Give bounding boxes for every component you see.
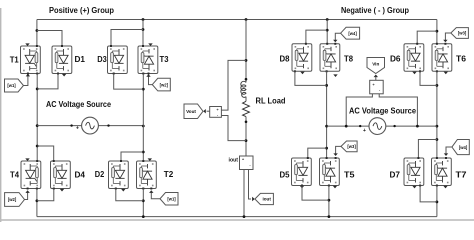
wire gate T5 [336, 146, 341, 154]
wire gate T6 [445, 33, 450, 41]
wire to D8 top [306, 30, 327, 44]
from tag [w4] for T7 [452, 140, 469, 155]
label iout block [229, 158, 239, 164]
junction leg1/D1 bottom [36, 88, 39, 91]
label D2 [95, 170, 105, 179]
diode block D7 [404, 157, 424, 187]
svg-text:iout: iout [262, 197, 271, 202]
wire to D6 top [417, 31, 437, 44]
label AC Voltage Source right [349, 106, 417, 115]
wire rail to T6 anode [436, 20, 438, 44]
node corner load top [245, 59, 248, 62]
svg-text:+: + [363, 128, 366, 134]
junction Vin + on AC line [345, 125, 348, 128]
label T5 [344, 171, 355, 180]
arrow into Vout tag [203, 109, 206, 113]
wire to D2 top [121, 152, 143, 161]
m-port arrow T2 [148, 158, 152, 161]
wire T7 cathode down [436, 186, 438, 217]
junction leg3/AC line [325, 125, 328, 128]
label T7 [456, 171, 468, 180]
gate arrow T7 [444, 153, 448, 156]
diode block D5 [292, 157, 312, 187]
svg-text:D2: D2 [95, 170, 105, 179]
gate arrow T6 [443, 40, 447, 43]
wire to D4 top [37, 146, 54, 161]
plus mark left source [76, 126, 79, 132]
svg-text:RL Load: RL Load [256, 97, 286, 106]
wire Vout signal [207, 110, 210, 112]
thyristor block T7 [432, 157, 452, 187]
m-port arrow D1 [62, 74, 66, 77]
junction bottom rail leg3 [328, 215, 331, 218]
svg-text:D1: D1 [75, 55, 86, 64]
wire top DC rail [37, 19, 437, 21]
junction T8/D8 bottom [325, 84, 328, 87]
series RLC port mark bottom [245, 121, 248, 124]
goto tag iout [255, 193, 274, 204]
wire T6 cathode to T7 anode [436, 71, 438, 158]
junction leg2/AC line [142, 125, 145, 128]
m-port arrow D7 [412, 186, 416, 189]
voltage measurement block Vin [370, 80, 384, 94]
m-port arrow D5 [300, 186, 304, 189]
wire D1 bottom join [37, 74, 58, 89]
thyristor block T2 [137, 160, 157, 190]
svg-text:AC Voltage Source: AC Voltage Source [349, 106, 417, 115]
title Negative ( - ) Group [341, 6, 409, 15]
wire R to iout block [245, 117, 247, 156]
junction T5/D5 bottom [328, 199, 331, 202]
wire rail to T3 anode [142, 20, 144, 47]
svg-text:[w2]: [w2] [160, 82, 169, 87]
label T2 [164, 170, 174, 179]
svg-text:[w3]: [w3] [347, 144, 356, 149]
gate arrow T5 [333, 153, 337, 156]
junction bottom rail leg2 [142, 215, 145, 218]
label D1 [75, 55, 86, 64]
m-port arrow D8 [300, 72, 304, 75]
wire bottom DC rail [37, 216, 437, 218]
svg-text:D7: D7 [390, 171, 401, 180]
from tag [w3] for T6 [451, 28, 469, 39]
AC source port mark left [70, 124, 72, 126]
gate arrow T2 [149, 190, 153, 193]
junction leg4/D7 top split [436, 138, 439, 141]
svg-text:iout: iout [229, 158, 239, 164]
series RLC port mark top [245, 78, 248, 81]
from tag [w3] for T5 [341, 141, 357, 152]
label D5 [280, 171, 291, 180]
AC voltage source V2 circle [369, 118, 386, 135]
goto tag Vin [367, 58, 385, 74]
svg-text:D8: D8 [280, 55, 291, 64]
wire gate T3 [149, 76, 153, 85]
thyristor block T4 [21, 160, 41, 190]
svg-text:D5: D5 [280, 171, 291, 180]
m-port arrow T4 [25, 158, 29, 161]
junction T3/D3 top split [142, 28, 145, 31]
wire rail to T8 anode [326, 20, 328, 44]
svg-text:+: + [76, 126, 79, 132]
label T6 [456, 55, 467, 64]
AC source right port mark R [393, 125, 395, 127]
svg-text:[w4]: [w4] [459, 145, 468, 150]
plus mark right source [363, 128, 366, 134]
wire T5 cathode down [328, 186, 330, 217]
svg-text:T6: T6 [456, 55, 467, 64]
svg-text:[w1]: [w1] [7, 83, 16, 88]
svg-text:T8: T8 [344, 55, 354, 64]
diode block D6 [404, 43, 424, 73]
wire D7 bottom join [420, 186, 437, 202]
label T3 [160, 55, 170, 64]
m-port arrow T3 [148, 43, 152, 46]
wire L to R [245, 97, 247, 102]
wire Vmeas - link [221, 116, 246, 141]
wire T1 cathode to T4 anode [36, 74, 38, 162]
wire to D7 top [418, 140, 437, 159]
junction T7/D7 bottom [436, 201, 439, 204]
label T1 [10, 56, 20, 65]
m-port arrow T6 [444, 72, 448, 75]
wire D5 bottom join [302, 186, 329, 201]
label D4 [75, 171, 86, 180]
label T8 [344, 55, 354, 64]
label T4 [10, 171, 20, 180]
label D3 [97, 55, 107, 64]
svg-text:D6: D6 [390, 55, 401, 64]
wire gate T1 [24, 76, 28, 86]
svg-text:D4: D4 [75, 171, 86, 180]
label AC Voltage Source left [46, 100, 112, 109]
junction T2/D2 bottom [142, 199, 145, 202]
voltage measurement block Vout [210, 107, 222, 118]
junction T6/D6 bottom [436, 84, 439, 87]
wire iout to bottom rail [243, 170, 245, 217]
m-port arrow T1 [25, 43, 29, 46]
junction leg3/D5 top split [325, 147, 328, 150]
AC source right port mark L [359, 125, 361, 127]
wire T8 cathode to T5 anode [326, 71, 328, 158]
wire gate T4 [25, 192, 28, 200]
m-port arrow T7 [443, 186, 447, 189]
wire AC line right segment [98, 125, 143, 127]
arrow into Vin tag [374, 75, 378, 78]
m-port arrow T5 [333, 186, 337, 189]
m-port arrow D6 [412, 72, 416, 75]
from tag [w1] for T2 [160, 193, 178, 206]
wire T4 cathode down [36, 189, 38, 217]
junction T6/D6 top split [436, 30, 439, 33]
svg-text:D3: D3 [97, 55, 107, 64]
svg-text:Vout: Vout [186, 109, 196, 114]
wire D3 bottom join [114, 74, 144, 90]
wire T2 cathode down [142, 189, 144, 217]
diode block D2 [109, 160, 129, 190]
from tag [w2] for T4 [5, 193, 25, 207]
junction leg1/AC line [36, 124, 39, 127]
gate arrow T1 [26, 74, 30, 77]
from tag [w1] for T1 [5, 79, 24, 92]
junction bottom rail / load [243, 215, 246, 218]
junction Vin - on AC line [416, 125, 419, 128]
junction T1/D1 top split [36, 29, 39, 32]
diode block D8 [292, 43, 312, 73]
wire rail to T1 anode [36, 20, 38, 47]
wire to D1 top [37, 31, 62, 47]
wire D4 bottom join [37, 189, 54, 201]
wire to D3 top [111, 30, 143, 47]
thyristor block T1 [21, 45, 41, 75]
svg-text:Negative ( - ) Group: Negative ( - ) Group [341, 6, 409, 15]
AC source port mark right [107, 124, 109, 126]
label RL Load [256, 97, 286, 106]
gate arrow T3 [146, 74, 150, 77]
gate arrow T8 [333, 40, 337, 43]
wire iout signal [249, 170, 252, 200]
thyristor block T8 [320, 43, 340, 73]
wire D8 bottom join [295, 71, 327, 85]
wire Vin signal [375, 77, 377, 81]
junction leg2/D2 top split [142, 151, 145, 154]
svg-text:T2: T2 [164, 170, 174, 179]
junction T8/D8 top split [326, 29, 329, 32]
wire T3 cathode to T2 anode [142, 74, 144, 162]
diode block D4 [51, 160, 71, 190]
svg-text:Vin: Vin [372, 62, 379, 67]
junction leg2/D3 bottom [142, 88, 145, 91]
junction top rail / T3 leg [142, 18, 145, 21]
svg-text:[w1]: [w1] [167, 196, 176, 201]
from tag [w2] for T3 [152, 78, 170, 91]
m-port arrow D2 [121, 189, 125, 192]
wire RL branch upper [245, 20, 247, 83]
wire gate T7 [446, 147, 452, 154]
wire D6 bottom join [420, 71, 437, 85]
goto tag Vout [184, 104, 203, 119]
diode block D1 [52, 45, 72, 75]
m-port arrow T8 [333, 74, 337, 77]
inductor L (RL Load) [241, 81, 246, 97]
label D8 [280, 55, 291, 64]
svg-text:[w2]: [w2] [8, 197, 17, 202]
wire Vmeas + tap [221, 60, 246, 110]
svg-text:AC Voltage Source: AC Voltage Source [46, 100, 112, 109]
current measurement block iout [240, 156, 254, 170]
resistor R (RL Load) [243, 101, 250, 116]
thyristor block T3 [138, 45, 158, 75]
svg-text:T3: T3 [160, 55, 170, 64]
svg-text:[w4]: [w4] [348, 31, 357, 36]
svg-text:Positive (+) Group: Positive (+) Group [49, 6, 114, 15]
arrow into iout tag [252, 197, 255, 201]
title Positive (+) Group [49, 6, 114, 15]
thyristor block T5 [320, 157, 340, 187]
junction leg1/D4 top split [36, 145, 39, 148]
from tag [w4] for T8 [341, 27, 360, 39]
thyristor block T6 [432, 43, 452, 73]
wire Vin + tap [346, 94, 372, 126]
svg-text:T5: T5 [344, 171, 355, 180]
gate arrow T4 [25, 190, 29, 193]
svg-text:[w3]: [w3] [458, 31, 467, 36]
junction leg4/AC line [436, 125, 439, 128]
label D6 [390, 55, 401, 64]
svg-text:T4: T4 [10, 171, 20, 180]
junction top rail / T8 leg [326, 18, 329, 21]
wire AC line right group [327, 125, 437, 127]
wire gate T8 [335, 33, 340, 40]
junction top rail / RL branch [245, 18, 248, 21]
m-port arrow D4 [60, 189, 64, 192]
wire AC line left segment [37, 125, 81, 127]
wire D2 bottom join [116, 189, 144, 201]
wire gate T2 [151, 192, 160, 199]
wire Vin - tap [379, 94, 417, 126]
wire to D5 top [308, 148, 327, 158]
svg-text:T7: T7 [456, 171, 468, 180]
svg-text:T1: T1 [10, 56, 20, 65]
junction Vmeas - tap [245, 139, 248, 142]
label D7 [390, 171, 401, 180]
diode block D3 [108, 45, 128, 75]
junction T4/D4 bottom [36, 199, 39, 202]
AC voltage source V1 circle [82, 117, 99, 134]
